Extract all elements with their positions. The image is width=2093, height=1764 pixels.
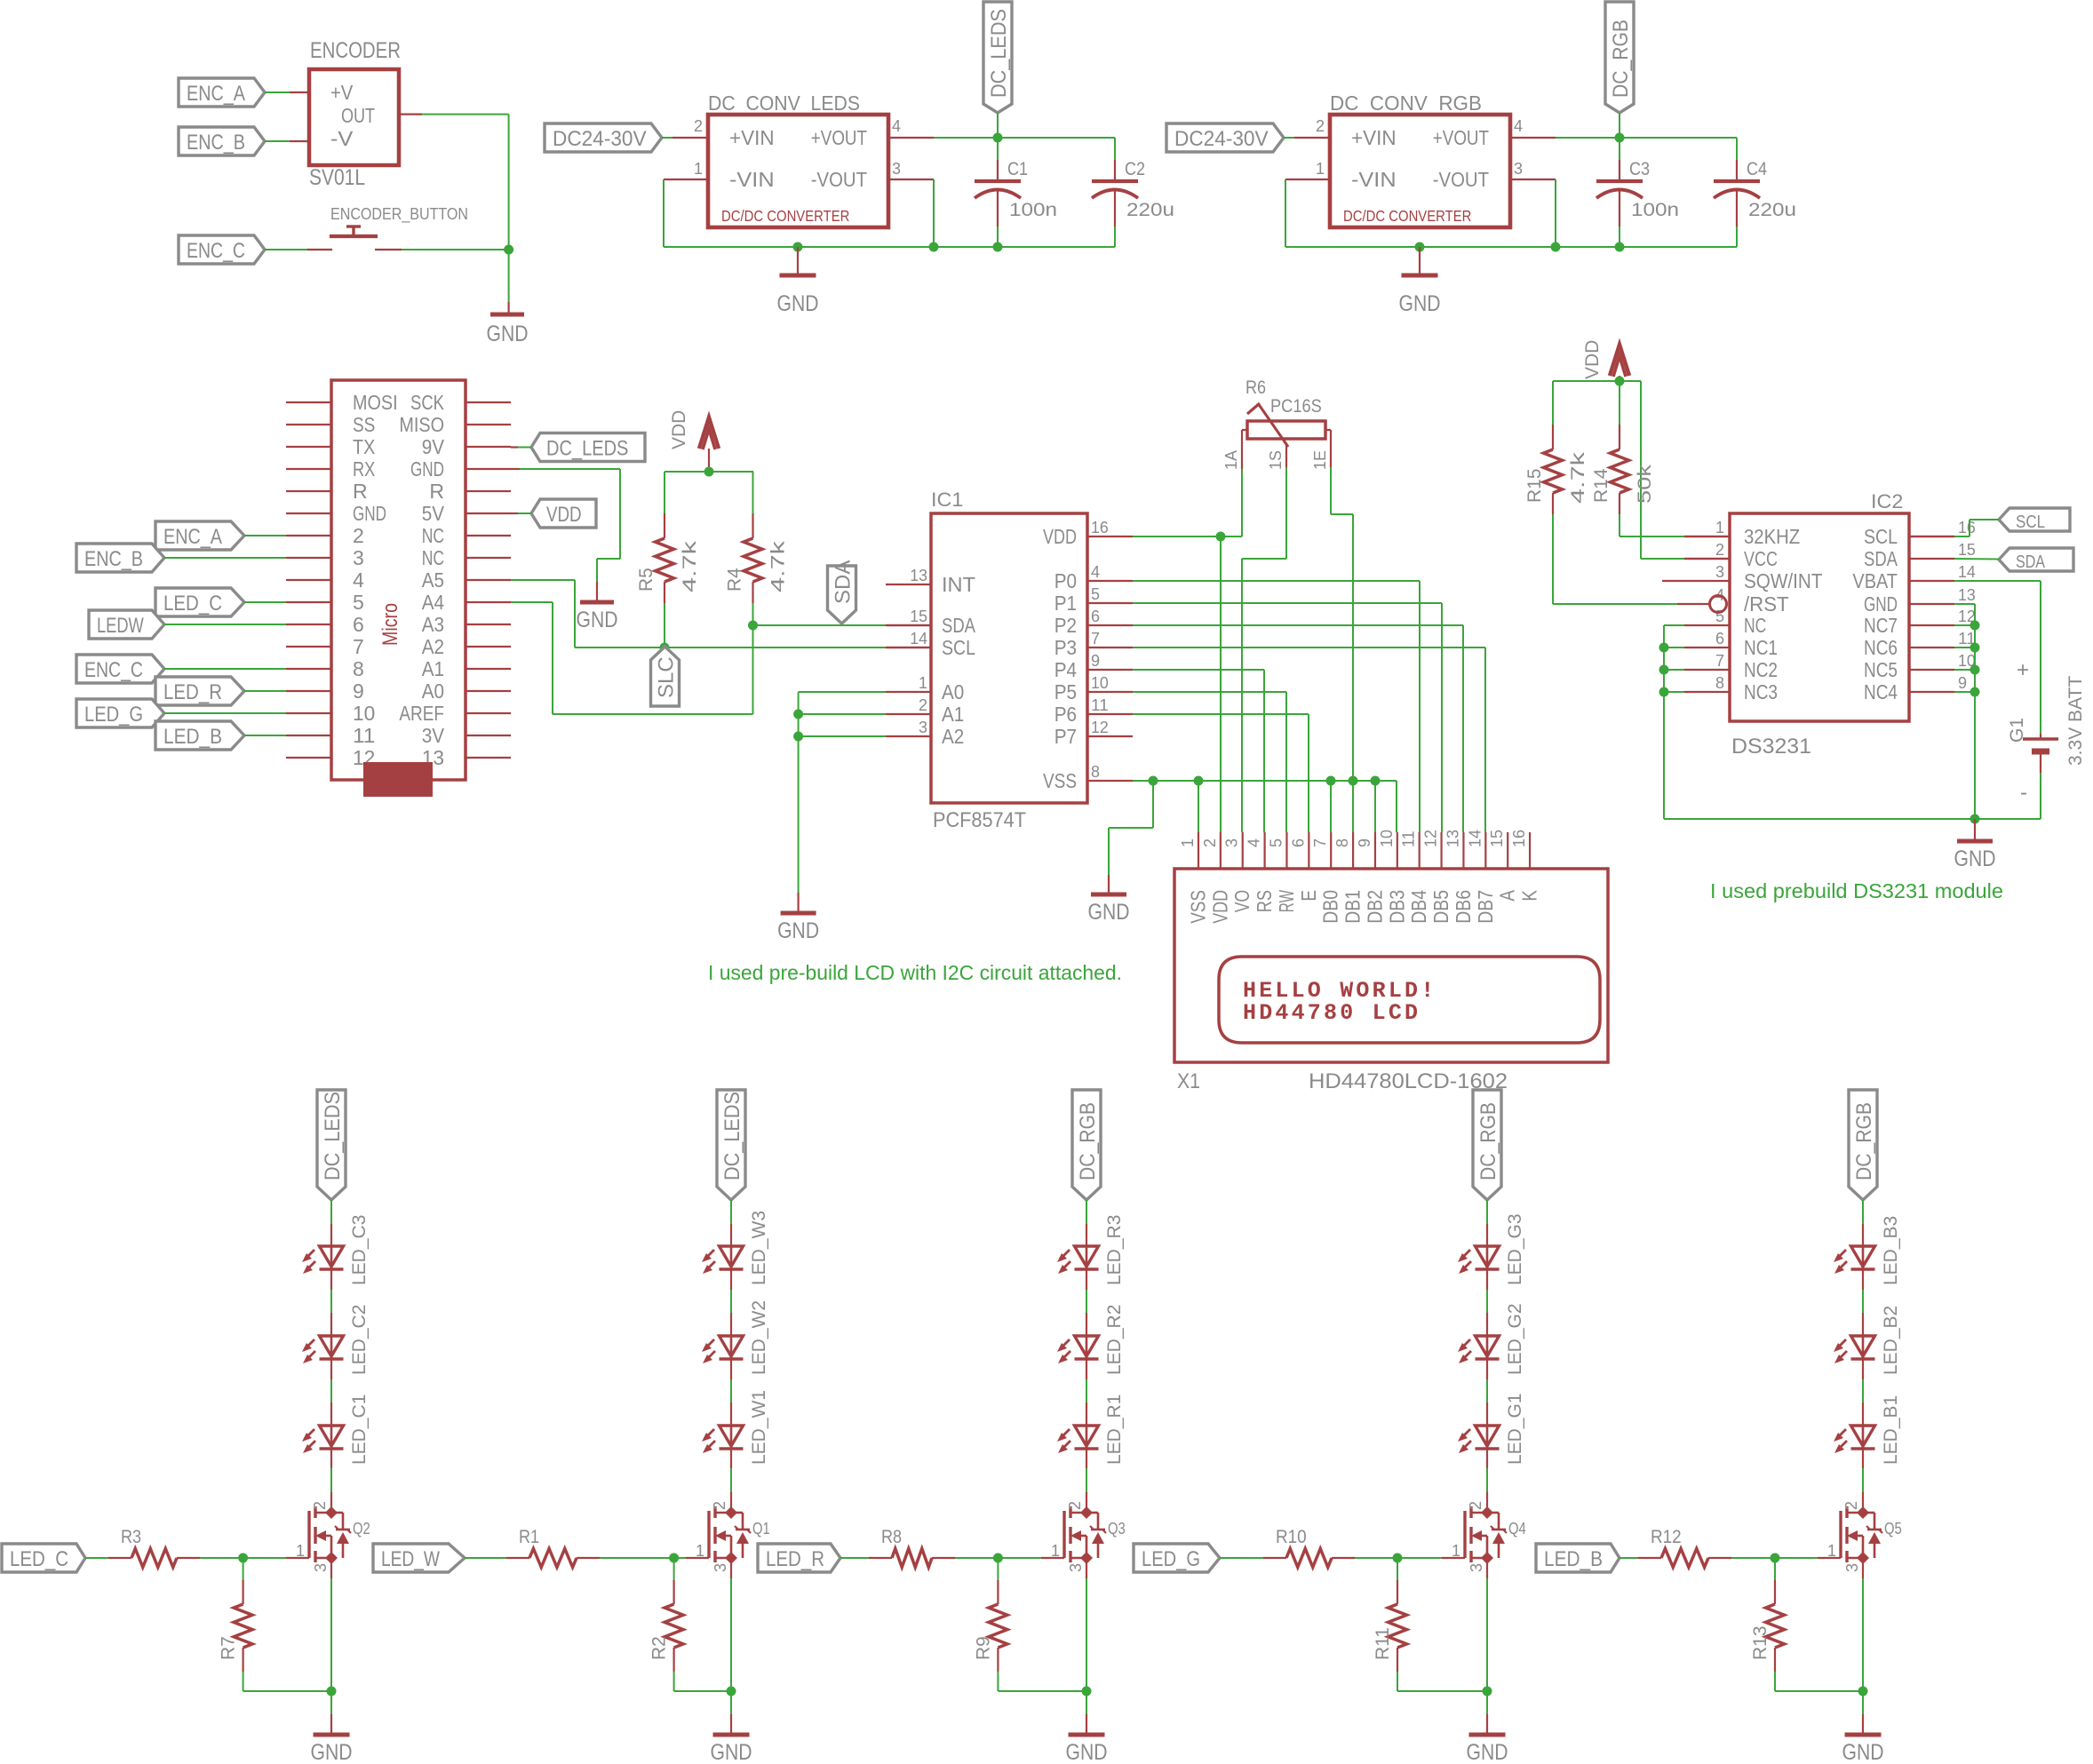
wire led link	[1086, 1269, 1087, 1290]
svg-text:G1: G1	[2007, 718, 2027, 743]
wire P4 to LCD RS	[1133, 669, 1264, 671]
wire source down	[330, 1558, 332, 1578]
junction SDA R4	[748, 621, 758, 631]
svg-text:5V: 5V	[422, 502, 445, 525]
svg-text:GND: GND	[1864, 592, 1898, 616]
wire R5 to SCL	[664, 603, 665, 648]
svg-text:3.3V BATT: 3.3V BATT	[2065, 676, 2086, 766]
svg-text:3: 3	[1514, 160, 1523, 178]
wire IC1 A0-A2 to ground	[799, 691, 886, 693]
svg-text:3: 3	[892, 160, 901, 178]
svg-text:GND: GND	[1088, 900, 1130, 925]
svg-text:5: 5	[1267, 838, 1285, 847]
svg-text:1E: 1E	[1311, 450, 1329, 470]
led LED_R3	[1057, 1215, 1125, 1285]
ground DC_CONV_RGB	[1419, 247, 1421, 274]
svg-text:GND: GND	[410, 457, 444, 481]
wire OUT to junction	[399, 114, 422, 115]
svg-text:8: 8	[1333, 838, 1351, 847]
svg-text:LED_R2: LED_R2	[1104, 1305, 1125, 1375]
wire NC left pins	[1664, 624, 1684, 626]
flag DC_LEDS (string LED_C)	[317, 1090, 346, 1200]
wire 9V to DC_LEDS	[511, 446, 518, 448]
svg-text:R: R	[429, 480, 444, 503]
svg-text:LED_G2: LED_G2	[1505, 1303, 1525, 1375]
svg-text:VCC: VCC	[1744, 547, 1778, 570]
svg-text:ENCODER: ENCODER	[310, 38, 401, 63]
capacitor C3 100n	[1619, 138, 1620, 160]
wire pulldown to source node	[1774, 1672, 1776, 1691]
wire NC right pins	[1954, 624, 1975, 626]
svg-text:LED_G: LED_G	[1142, 1547, 1200, 1571]
ground IC1 address pins	[797, 893, 799, 911]
resistor R14 50k	[1591, 425, 1655, 514]
svg-text:R15: R15	[1524, 468, 1545, 503]
wire DC24-30V to +VIN	[662, 137, 672, 139]
svg-text:11: 11	[353, 724, 375, 747]
svg-text:NC1: NC1	[1744, 636, 1778, 659]
svg-text:NC6: NC6	[1864, 636, 1898, 659]
wire rtc ground bus	[1664, 818, 2041, 820]
wire flag to resistor	[1619, 1557, 1638, 1559]
svg-text:R5: R5	[636, 568, 657, 592]
svg-text:50k: 50k	[1635, 464, 1655, 504]
flag ENC_A	[179, 78, 265, 107]
svg-text:8: 8	[353, 657, 364, 680]
svg-text:Q1: Q1	[752, 1520, 770, 1538]
svg-text:6: 6	[353, 613, 364, 636]
flag ENC_C	[179, 235, 265, 264]
svg-text:8: 8	[1715, 674, 1724, 692]
flag LED_R	[758, 1544, 840, 1572]
svg-text:R12: R12	[1651, 1527, 1682, 1547]
svg-text:2: 2	[1715, 541, 1724, 559]
resistor R11 pulldown	[1373, 1558, 1407, 1672]
svg-text:SCL: SCL	[2016, 513, 2045, 532]
svg-text:2: 2	[711, 1501, 728, 1510]
led LED_R2	[1057, 1305, 1125, 1375]
svg-text:NC2: NC2	[1744, 658, 1778, 681]
svg-text:P1: P1	[1054, 592, 1077, 615]
micro module (Arduino)	[286, 380, 511, 797]
wire P6 to LCD E	[1133, 713, 1309, 715]
wire ENC_A to micro	[244, 535, 286, 536]
wire flag to LED string	[730, 1200, 732, 1224]
svg-text:LED_W3: LED_W3	[749, 1211, 769, 1285]
ground led column	[330, 1691, 332, 1714]
wire led to drain	[1486, 1449, 1488, 1468]
led LED_B3	[1834, 1216, 1901, 1285]
wire IC2 GND	[1954, 603, 1975, 605]
svg-text:+VOUT: +VOUT	[1433, 126, 1489, 149]
svg-text:Q2: Q2	[353, 1520, 370, 1538]
transistor Q1	[696, 1501, 770, 1572]
resistor R7 pulldown	[219, 1558, 253, 1672]
wire led link	[730, 1269, 732, 1290]
svg-text:A3: A3	[422, 613, 444, 636]
svg-text:RS: RS	[1253, 890, 1276, 912]
junction gnd DC_CONV_LEDS	[793, 242, 803, 252]
svg-text:A5: A5	[422, 568, 444, 592]
svg-text:RX: RX	[353, 457, 375, 481]
svg-text:R3: R3	[121, 1527, 141, 1547]
svg-text:P0: P0	[1054, 569, 1077, 592]
svg-text:14: 14	[910, 630, 927, 648]
svg-text:LED_C3: LED_C3	[349, 1215, 370, 1285]
svg-text:ENC_C: ENC_C	[84, 658, 143, 682]
svg-text:2: 2	[919, 696, 927, 714]
svg-text:A1: A1	[422, 657, 444, 680]
svg-text:X1: X1	[1177, 1069, 1200, 1093]
wire DC_RGB to node	[1619, 113, 1620, 138]
resistor R10	[1263, 1527, 1355, 1568]
svg-text:DC_LEDS: DC_LEDS	[987, 9, 1011, 98]
wire VDD to R5/R4 tops	[665, 471, 753, 473]
svg-text:VDD: VDD	[1043, 525, 1077, 548]
junction NC6	[1970, 643, 1980, 653]
led LED_C3	[302, 1215, 370, 1285]
wire ENC_B to micro	[164, 557, 286, 559]
svg-text:ENC_C: ENC_C	[187, 239, 245, 263]
wire pulldown to source node	[243, 1672, 244, 1691]
svg-text:7: 7	[353, 635, 364, 658]
svg-text:DC/DC CONVERTER: DC/DC CONVERTER	[1343, 207, 1471, 225]
svg-text:C1: C1	[1007, 159, 1028, 179]
svg-text:3: 3	[919, 719, 927, 736]
svg-text:VSS: VSS	[1187, 890, 1210, 924]
svg-text:R4: R4	[725, 568, 745, 592]
led LED_W3	[702, 1211, 769, 1285]
svg-text:+VIN: +VIN	[1351, 126, 1397, 149]
svg-text:LED_C: LED_C	[163, 592, 222, 616]
svg-text:4: 4	[353, 568, 364, 592]
svg-text:100n: 100n	[1631, 200, 1679, 220]
resistor R4 4.7k	[725, 513, 789, 603]
led LED_C2	[302, 1305, 370, 1375]
svg-text:IC2: IC2	[1871, 490, 1903, 513]
capacitor C4 220u	[1736, 138, 1738, 160]
wire LED_G to micro	[164, 712, 286, 714]
svg-text:12: 12	[1091, 719, 1109, 736]
junction gate node	[238, 1553, 248, 1563]
svg-text:2: 2	[1066, 1501, 1084, 1510]
svg-text:LED_R: LED_R	[766, 1547, 824, 1571]
wire A5 to IC1 SCL	[511, 579, 575, 581]
svg-text:SS: SS	[353, 413, 375, 436]
wire resistor to gate node	[1731, 1557, 1775, 1559]
flag VDD (micro 5V)	[531, 499, 596, 528]
svg-text:DC_RGB: DC_RGB	[1609, 20, 1633, 98]
wire node to gate	[1775, 1557, 1818, 1559]
svg-text:15: 15	[1488, 830, 1506, 847]
svg-text:1: 1	[919, 674, 927, 692]
resistor R15 4.7k	[1524, 425, 1588, 514]
wire R4 to SDA	[752, 603, 754, 625]
svg-text:SCL: SCL	[942, 636, 975, 659]
svg-text:R8: R8	[881, 1527, 902, 1547]
junction source gnd	[1082, 1687, 1092, 1696]
wire led link	[1862, 1269, 1864, 1290]
svg-text:I used pre-build LCD with I2C: I used pre-build LCD with I2C circuit at…	[708, 961, 1122, 984]
resistor R1	[506, 1527, 600, 1568]
flag LED_C (micro)	[155, 588, 244, 616]
svg-text:6: 6	[1289, 838, 1307, 847]
ground led column	[1486, 1691, 1488, 1714]
svg-text:3: 3	[1468, 1563, 1485, 1572]
wire switch to junction	[402, 249, 509, 250]
pin /RST bubble	[1710, 596, 1727, 613]
junction A2 gnd	[793, 732, 803, 742]
svg-text:VDD: VDD	[1582, 340, 1603, 379]
led LED_G3	[1458, 1213, 1525, 1285]
svg-text:2: 2	[1467, 1501, 1484, 1510]
svg-text:10: 10	[353, 702, 375, 725]
wire led link	[330, 1359, 332, 1379]
junction A1 gnd	[793, 710, 803, 719]
svg-text:7: 7	[1715, 652, 1724, 670]
wire LED_R to micro	[244, 690, 286, 692]
svg-text:SDA: SDA	[1864, 547, 1898, 570]
wire micro GND to ground	[511, 468, 520, 470]
transistor Q3	[1051, 1501, 1126, 1572]
svg-text:DC_RGB: DC_RGB	[1476, 1102, 1500, 1180]
svg-text:DC/DC CONVERTER: DC/DC CONVERTER	[721, 207, 849, 225]
junction NC3 left	[1659, 687, 1669, 697]
svg-text:LED_R3: LED_R3	[1104, 1215, 1125, 1285]
svg-text:9: 9	[353, 679, 364, 703]
resistor R2 pulldown	[649, 1558, 684, 1672]
svg-text:DC_CONV_RGB: DC_CONV_RGB	[1330, 91, 1482, 115]
svg-text:3: 3	[1843, 1563, 1861, 1572]
wire led link	[1086, 1359, 1087, 1379]
led LED_G2	[1458, 1303, 1525, 1375]
svg-text:1: 1	[694, 160, 703, 178]
junction source gnd	[327, 1687, 337, 1696]
wire -VIN loop	[664, 179, 708, 180]
svg-text:GND: GND	[311, 1740, 353, 1764]
svg-text:R6: R6	[1245, 377, 1266, 398]
svg-text:2: 2	[1316, 117, 1325, 135]
svg-text:GND: GND	[777, 918, 819, 943]
led LED_W2	[702, 1300, 769, 1375]
wire source down	[1486, 1558, 1488, 1578]
wire ENC_C to micro	[164, 668, 286, 670]
wire pulldown to source node	[673, 1672, 675, 1691]
led LED_C1	[302, 1395, 370, 1465]
flag DC_LEDS (string LED_W)	[717, 1090, 745, 1200]
svg-text:HD44780 LCD: HD44780 LCD	[1243, 1000, 1421, 1026]
junction VDD to LCD VDD	[1216, 532, 1226, 542]
svg-text:A0: A0	[942, 680, 964, 703]
wire IC1 VSS to ground	[1133, 780, 1397, 782]
junction gate node	[669, 1553, 679, 1563]
svg-text:INT: INT	[942, 573, 975, 596]
junction source gnd	[727, 1687, 736, 1696]
svg-text:DS3231: DS3231	[1731, 735, 1811, 759]
svg-text:VDD: VDD	[546, 503, 582, 527]
dc/dc converter DC_CONV_RGB	[1316, 91, 1523, 227]
svg-text:VBAT: VBAT	[1852, 569, 1898, 592]
flag ENC_B	[179, 127, 265, 155]
svg-text:DB0: DB0	[1319, 890, 1342, 924]
svg-text:Q3: Q3	[1108, 1520, 1126, 1538]
svg-text:8: 8	[1091, 763, 1100, 781]
flag LED_G	[1134, 1544, 1220, 1572]
svg-text:LED_G3: LED_G3	[1505, 1213, 1525, 1285]
wire VBAT to battery	[1954, 580, 2041, 582]
svg-text:DC_LEDS: DC_LEDS	[321, 1092, 345, 1180]
wire LED_B to micro	[244, 735, 286, 736]
svg-text:RW: RW	[1275, 890, 1298, 912]
svg-text:3: 3	[1715, 563, 1724, 581]
svg-text:LED_C1: LED_C1	[349, 1395, 370, 1465]
svg-text:TX: TX	[353, 435, 375, 458]
transistor Q4	[1452, 1501, 1526, 1572]
svg-text:PCF8574T: PCF8574T	[933, 808, 1026, 832]
wire SDA line	[753, 624, 887, 626]
svg-text:VDD: VDD	[1208, 890, 1231, 924]
svg-text:16: 16	[1958, 519, 1976, 536]
flag DC24-30V input DC_CONV_LEDS	[545, 123, 662, 152]
potentiometer R6 PC16S	[1222, 377, 1331, 470]
flag LED_G (micro)	[76, 699, 164, 727]
svg-text:Q5: Q5	[1884, 1520, 1902, 1538]
svg-text:ENC_B: ENC_B	[187, 131, 245, 155]
svg-text:C4: C4	[1747, 159, 1767, 179]
svg-text:LEDW: LEDW	[97, 614, 144, 638]
svg-text:7: 7	[1091, 630, 1100, 648]
svg-text:GND: GND	[1066, 1740, 1108, 1764]
flag LED_R (micro)	[155, 677, 244, 705]
svg-text:1: 1	[1179, 838, 1197, 847]
wire pulldown to source node	[1397, 1672, 1398, 1691]
svg-text:-V: -V	[330, 127, 354, 150]
resistor R8	[869, 1527, 955, 1568]
wire pot 1S to LCD VO	[1285, 467, 1287, 559]
svg-text:4: 4	[1514, 117, 1523, 135]
svg-text:R10: R10	[1276, 1527, 1307, 1547]
battery G1 3.3V	[2007, 658, 2086, 805]
flag ENC_C (micro)	[76, 655, 164, 683]
wire VSS row to LCD pins	[1194, 776, 1204, 786]
svg-text:VDD: VDD	[669, 410, 689, 449]
svg-text:P5: P5	[1054, 680, 1077, 703]
svg-text:-VIN: -VIN	[729, 168, 775, 191]
svg-text:11: 11	[1091, 696, 1109, 714]
wire LCD pin2 column	[1220, 536, 1222, 832]
wire flag to resistor	[465, 1557, 506, 1559]
svg-text:DC_LEDS: DC_LEDS	[546, 437, 628, 461]
wire led link	[1862, 1359, 1864, 1379]
svg-text:GND: GND	[353, 502, 386, 525]
wire P5 to LCD RW	[1133, 691, 1286, 693]
svg-text:I used prebuild DS3231 module: I used prebuild DS3231 module	[1710, 879, 2003, 902]
svg-text:15: 15	[1958, 541, 1976, 559]
wire node to gate	[674, 1557, 686, 1559]
wire flag to LED string	[1862, 1200, 1864, 1224]
wire led to drain	[730, 1449, 732, 1468]
svg-text:GND: GND	[1399, 291, 1441, 316]
op IC1 PCF8574T	[886, 489, 1133, 832]
flag DC_LEDS (micro 9V)	[531, 433, 645, 462]
junction NC5	[1970, 665, 1980, 675]
wire VDD to VCC	[1640, 381, 1642, 559]
svg-text:LED_G1: LED_G1	[1505, 1393, 1525, 1465]
svg-text:VO: VO	[1230, 890, 1253, 912]
wire led to drain	[1086, 1449, 1087, 1468]
svg-text:LED_G: LED_G	[84, 703, 143, 727]
svg-text:32KHZ: 32KHZ	[1744, 525, 1800, 548]
encoder SV01L	[309, 38, 401, 190]
svg-text:LED_B: LED_B	[1544, 1547, 1603, 1571]
transistor Q5	[1827, 1501, 1902, 1572]
flag DC_LEDS vertical	[983, 2, 1012, 113]
flag DC_RGB (string LED_R)	[1072, 1090, 1101, 1200]
svg-text:4.7k: 4.7k	[768, 540, 789, 592]
ground led column	[730, 1691, 732, 1714]
svg-text:3: 3	[712, 1563, 729, 1572]
flag LED_B	[1536, 1544, 1619, 1572]
junction rtc gnd	[1970, 814, 1980, 824]
wire P2 to LCD DB6	[1133, 624, 1463, 626]
svg-text:AREF: AREF	[399, 702, 444, 725]
svg-text:6: 6	[1091, 608, 1100, 625]
wire SDA rtc	[1954, 558, 1999, 560]
junction NC7	[1970, 621, 1980, 631]
wire 5V to VDD	[511, 513, 518, 514]
svg-text:R1: R1	[519, 1527, 539, 1547]
flag DC_RGB vertical	[1605, 2, 1634, 113]
svg-text:DB4: DB4	[1407, 890, 1430, 924]
svg-text:12: 12	[1422, 830, 1440, 847]
svg-text:LED_R1: LED_R1	[1104, 1395, 1125, 1465]
svg-text:4: 4	[1091, 563, 1100, 581]
junction DC_RGB node	[1615, 133, 1625, 143]
svg-text:SDA: SDA	[942, 614, 976, 637]
svg-text:NC7: NC7	[1864, 614, 1898, 637]
wire battery to bus	[2040, 773, 2041, 819]
svg-text:/RST: /RST	[1744, 592, 1789, 616]
switch ENCODER_BUTTON	[307, 205, 468, 250]
flag SLC (vertical)	[651, 647, 680, 706]
svg-text:ENC_B: ENC_B	[84, 547, 143, 571]
junction gate node	[1393, 1553, 1403, 1563]
resistor R9 pulldown	[973, 1558, 1007, 1672]
svg-text:NC: NC	[422, 524, 444, 547]
svg-text:DB5: DB5	[1429, 890, 1452, 924]
wire -VOUT down	[888, 179, 934, 180]
svg-text:GND: GND	[487, 322, 529, 346]
wire node to gate	[998, 1557, 1041, 1559]
svg-text:-VOUT: -VOUT	[811, 168, 867, 191]
wire resistor to gate node	[955, 1557, 998, 1559]
svg-text:R13: R13	[1750, 1625, 1771, 1660]
svg-text:+V: +V	[330, 81, 354, 104]
svg-text:2: 2	[311, 1501, 329, 1510]
svg-text:R: R	[353, 480, 368, 503]
svg-text:16: 16	[1091, 519, 1109, 536]
svg-text:A: A	[1496, 889, 1519, 901]
wire DC_LEDS to node	[997, 113, 999, 138]
svg-text:GND: GND	[711, 1740, 752, 1764]
svg-text:ENCODER_BUTTON: ENCODER_BUTTON	[330, 205, 468, 224]
junction encoder-gnd	[504, 245, 513, 255]
svg-text:6: 6	[1715, 630, 1724, 648]
wire P3 to LCD DB7	[1133, 647, 1485, 648]
svg-text:P7: P7	[1054, 725, 1077, 748]
wire led link	[1486, 1269, 1488, 1290]
wire led link	[730, 1359, 732, 1379]
